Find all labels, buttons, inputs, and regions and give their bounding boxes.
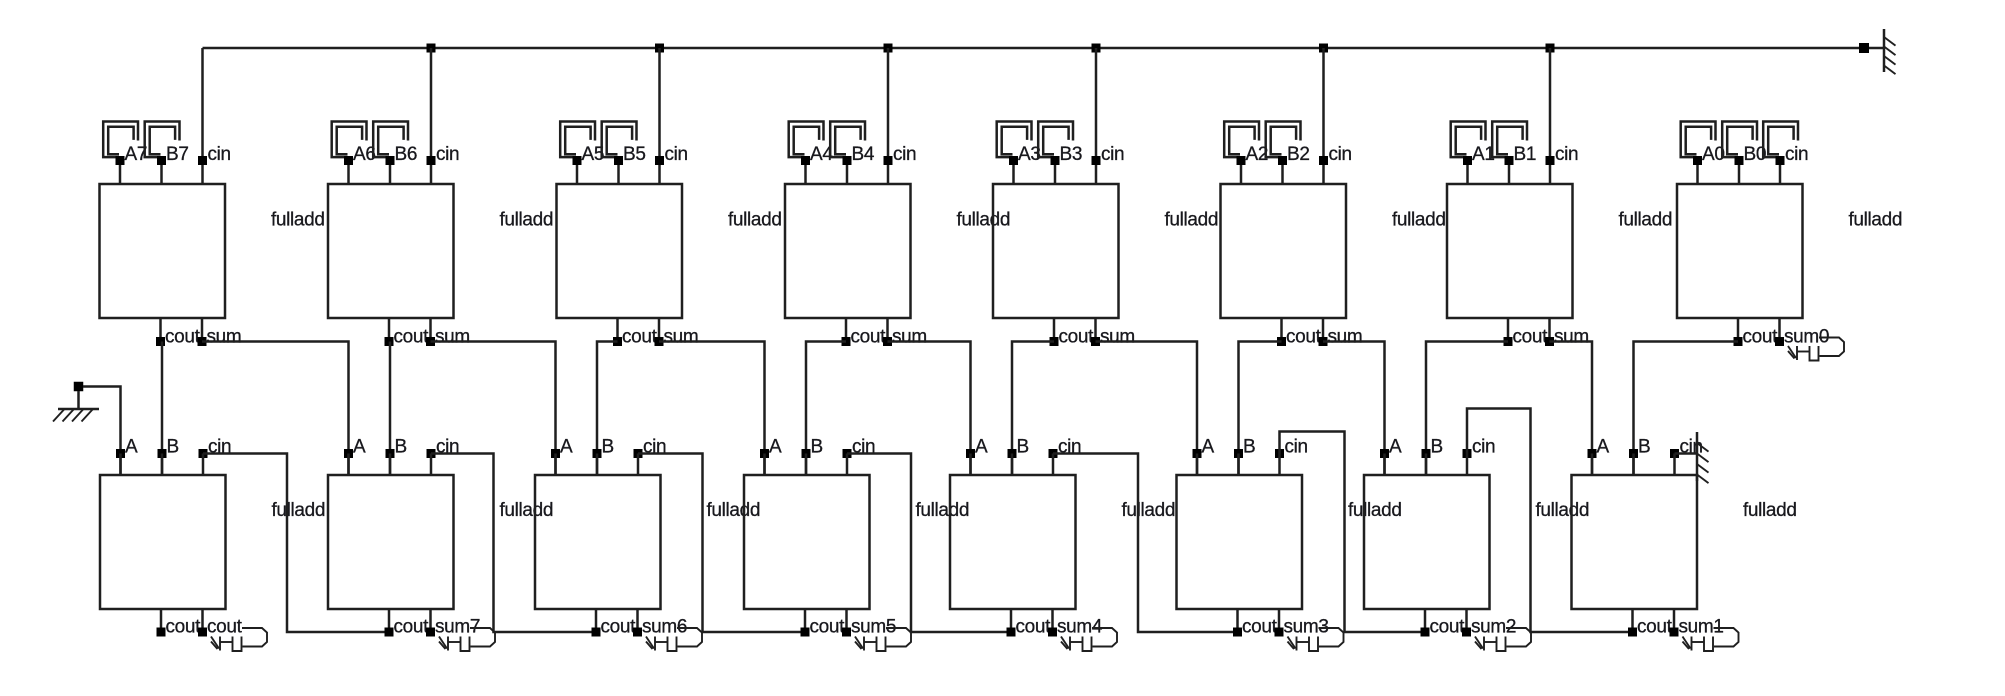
svg-text:B1: B1 xyxy=(1514,144,1537,165)
wire: U2.cout to U10.B xyxy=(389,342,392,476)
label: fulladd U11 xyxy=(707,500,761,521)
wire: U7.cout stub xyxy=(1507,318,1510,342)
pin: U9.cout xyxy=(157,628,166,637)
fulladd U2 (top row bit 6) xyxy=(328,184,454,318)
pin: U12.B xyxy=(802,449,811,458)
label: cout (U9) xyxy=(166,617,202,638)
svg-text:sum7: sum7 xyxy=(435,617,480,638)
wire: U16.cin to ground xyxy=(1675,452,1698,455)
wire: U10.sum stub xyxy=(429,609,432,632)
wire: U5.cout to U13.B xyxy=(1012,342,1054,476)
label: cin (U3) xyxy=(665,144,688,165)
pin: U1.cin xyxy=(198,156,207,165)
wire: U16.cin stub xyxy=(1673,454,1676,476)
wire: U1.cout to U9.B xyxy=(161,342,164,476)
label: fulladd U7 xyxy=(1619,210,1673,231)
wire: A2 button to U6.A xyxy=(1240,161,1243,185)
wire: U12.B stub xyxy=(805,454,808,476)
label: cin (U6) xyxy=(1329,144,1352,165)
label: B (U10) xyxy=(395,437,407,458)
wire: U10.cin to U11.cout (carry chain) xyxy=(431,454,596,633)
button B4 xyxy=(830,122,865,158)
wire: U14.B stub xyxy=(1237,454,1240,476)
label: cin (U8) xyxy=(1785,144,1808,165)
svg-text:sum: sum xyxy=(1100,327,1135,348)
wire: U2.sum to U11.A xyxy=(431,342,556,476)
led: sum0 indicator xyxy=(1788,338,1844,361)
svg-text:cout: cout xyxy=(165,327,201,348)
wire: U9.cin to U10.cout (carry chain) xyxy=(203,454,389,633)
wire: U13.sum stub xyxy=(1051,609,1054,632)
svg-text:sum4: sum4 xyxy=(1057,617,1103,638)
wire: U11.sum stub xyxy=(636,609,639,632)
label: sum (U6) xyxy=(1328,327,1363,348)
wire: cin button to U8.cin xyxy=(1779,161,1782,185)
pin: U7.B (B1) xyxy=(1505,156,1514,165)
svg-text:A: A xyxy=(560,437,573,458)
label: A2 xyxy=(1246,144,1269,165)
svg-text:fulladd: fulladd xyxy=(957,210,1011,231)
wire: U16.B stub xyxy=(1632,454,1635,476)
wire: U15.A stub xyxy=(1383,454,1386,476)
svg-text:fulladd: fulladd xyxy=(728,210,782,231)
wire: U11.cout stub xyxy=(595,609,598,632)
fulladd U9 (bottom row) xyxy=(100,475,226,609)
wire: U9.B stub xyxy=(161,454,164,476)
wire: U4.sum to U13.A xyxy=(888,342,971,476)
label: B1 xyxy=(1514,144,1537,165)
svg-text:fulladd: fulladd xyxy=(1392,210,1446,231)
label: B7 xyxy=(166,144,189,165)
label: B (U12) xyxy=(811,437,823,458)
svg-text:cin: cin xyxy=(893,144,916,165)
pin: U16.B xyxy=(1629,449,1638,458)
label: sum (U2) xyxy=(435,327,470,348)
pin: U1.cout xyxy=(156,337,165,346)
pin: U14.cout xyxy=(1233,628,1242,637)
wire: U2.sum stub xyxy=(429,318,432,342)
button A4 xyxy=(789,122,824,158)
pin: U16.cout xyxy=(1628,628,1637,637)
label: net sum6 xyxy=(642,617,687,638)
pin: U1.sum xyxy=(198,337,207,346)
wire: U4.cout to U12.B xyxy=(806,342,846,476)
label: fulladd U6 xyxy=(1392,210,1446,231)
label: fulladd U12 xyxy=(916,500,970,521)
label: cin (U7) xyxy=(1555,144,1578,165)
pin: U15.A xyxy=(1380,449,1389,458)
pin: U15.B xyxy=(1422,449,1431,458)
fulladd U12 (bottom row) xyxy=(744,475,870,609)
wire: U1.cout stub xyxy=(159,318,162,342)
junction: bus to U6 cin xyxy=(1319,44,1328,53)
label: fulladd U16 xyxy=(1743,500,1797,521)
wire: U12.cin stub xyxy=(846,454,849,476)
svg-text:B: B xyxy=(811,437,823,458)
pin: U3.cout xyxy=(613,337,622,346)
pin: U10.B xyxy=(386,449,395,458)
pin: U13.A xyxy=(966,449,975,458)
wire: U9.sum stub xyxy=(201,609,204,632)
wire: bus drop to U3 cin xyxy=(658,48,661,184)
button B7 xyxy=(145,122,180,158)
fulladd U8 (top row bit 0) xyxy=(1677,184,1803,318)
button B5 xyxy=(602,122,637,158)
wire: U6.sum to U15.A xyxy=(1323,342,1385,476)
label: cout (U2) xyxy=(394,327,430,348)
wire: bus drop to U5 cin xyxy=(1095,48,1098,184)
label: A7 xyxy=(125,144,148,165)
pin: U12.cin xyxy=(843,449,852,458)
pin: bus terminal (net cin high) xyxy=(1859,43,1869,53)
button B2 xyxy=(1266,122,1301,158)
label: cin (U5) xyxy=(1101,144,1124,165)
pin: U3.B (B5) xyxy=(614,156,623,165)
svg-text:cout: cout xyxy=(1016,617,1052,638)
pin: U12.sum / net xyxy=(842,628,851,637)
label: cout (U11) xyxy=(601,617,637,638)
fulladd U16 (bottom row) xyxy=(1572,475,1698,609)
label: sum (U3) xyxy=(664,327,699,348)
label: net sum3 xyxy=(1284,617,1329,638)
wire: U8.cout stub xyxy=(1737,318,1740,342)
wire: U13.cin stub xyxy=(1052,454,1055,476)
svg-text:cin: cin xyxy=(1329,144,1352,165)
svg-text:B5: B5 xyxy=(623,144,646,165)
label: A4 xyxy=(810,144,833,165)
wire: U11.cin to U12.cout (carry chain) xyxy=(638,454,805,633)
label: B5 xyxy=(623,144,646,165)
wire: A7 button to U1.A xyxy=(119,161,122,185)
wire: U7.sum to U16.A xyxy=(1550,342,1593,476)
label: A (U10) xyxy=(353,437,366,458)
label: cout (U14) xyxy=(1242,617,1278,638)
svg-text:A: A xyxy=(125,437,138,458)
junction: bus to U5 cin xyxy=(1092,44,1101,53)
wire: U9.cin stub xyxy=(202,454,205,476)
wire: U10.cin stub xyxy=(430,454,433,476)
svg-text:B4: B4 xyxy=(852,144,875,165)
pin: U8.cin xyxy=(1776,156,1785,165)
label: cout (U7) xyxy=(1513,327,1549,348)
pin: U3.sum xyxy=(655,337,664,346)
pin: U14.A xyxy=(1193,449,1202,458)
svg-text:B: B xyxy=(1017,437,1029,458)
wire: U2.cout stub xyxy=(388,318,391,342)
wire: bus drop to U6 cin xyxy=(1322,48,1325,184)
label: cout (U5) xyxy=(1059,327,1095,348)
svg-text:cin: cin xyxy=(208,144,231,165)
wire: A3 button to U5.A xyxy=(1012,161,1015,185)
pin: U9.A xyxy=(116,449,125,458)
svg-text:B7: B7 xyxy=(166,144,189,165)
fulladd U10 (bottom row) xyxy=(328,475,454,609)
ground: left (A input of U9) xyxy=(53,382,99,422)
wire: U10.A stub xyxy=(347,454,350,476)
pin: U5.sum xyxy=(1091,337,1100,346)
label: A6 xyxy=(353,144,376,165)
wire: U13.cout stub xyxy=(1010,609,1013,632)
label: fulladd U10 xyxy=(500,500,554,521)
wire: U8.sum stub xyxy=(1778,318,1781,342)
pin: U3.cin xyxy=(655,156,664,165)
wire: U16.sum stub xyxy=(1673,609,1676,632)
pin: U7.cout xyxy=(1504,337,1513,346)
svg-text:cin: cin xyxy=(665,144,688,165)
wire: U12.cin to U13.cout (carry chain) xyxy=(847,454,1011,633)
wire: U8.cout to U16.B xyxy=(1634,342,1739,476)
svg-text:fulladd: fulladd xyxy=(1122,500,1176,521)
wire: bus drop to U2 cin xyxy=(430,48,433,184)
wire: U13.A stub xyxy=(969,454,972,476)
pin: U16.cin xyxy=(1670,449,1679,458)
wire: B5 button to U3.B xyxy=(617,161,620,185)
label: fulladd U9 xyxy=(272,500,326,521)
label: sum (U7) xyxy=(1554,327,1589,348)
pin: U9.sum / net xyxy=(198,628,207,637)
svg-text:cout: cout xyxy=(622,327,658,348)
svg-text:fulladd: fulladd xyxy=(1743,500,1797,521)
label: cout (U6) xyxy=(1286,327,1322,348)
label: cout (U4) xyxy=(851,327,887,348)
pin: U8.B (B0) xyxy=(1735,156,1744,165)
svg-text:fulladd: fulladd xyxy=(1849,210,1903,231)
label: cout (U10) xyxy=(394,617,430,638)
wire: U11.cin stub xyxy=(637,454,640,476)
label: B (U14) xyxy=(1243,437,1255,458)
wire: U3.cout stub xyxy=(616,318,619,342)
pin: U5.A (A3) xyxy=(1009,156,1018,165)
svg-text:B: B xyxy=(167,437,179,458)
fulladd U7 (top row bit 1) xyxy=(1447,184,1573,318)
label: B4 xyxy=(852,144,875,165)
pin: U10.sum / net xyxy=(426,628,435,637)
wire: bus drop to U1 cin xyxy=(201,48,204,184)
pin: U13.cout xyxy=(1007,628,1016,637)
label: cout (U8) xyxy=(1743,327,1779,348)
wire: U4.sum stub xyxy=(886,318,889,342)
label: cin (U11) xyxy=(643,437,666,458)
label: A5 xyxy=(582,144,605,165)
button A0 xyxy=(1681,122,1716,158)
pin: U4.sum xyxy=(883,337,892,346)
wire: U5.sum to U14.A xyxy=(1096,342,1198,476)
wire: U16.A stub xyxy=(1591,454,1594,476)
svg-text:fulladd: fulladd xyxy=(707,500,761,521)
wire: B2 button to U6.B xyxy=(1281,161,1284,185)
label: fulladd U1 xyxy=(271,210,325,231)
svg-text:cout: cout xyxy=(1430,617,1466,638)
label: cin (U13) xyxy=(1058,437,1081,458)
pin: U7.A (A1) xyxy=(1463,156,1472,165)
wire: B6 button to U2.B xyxy=(389,161,392,185)
label: cin (U14) xyxy=(1285,437,1308,458)
wire: A6 button to U2.A xyxy=(347,161,350,185)
wire: U5.sum stub xyxy=(1094,318,1097,342)
label: A (U9) xyxy=(125,437,138,458)
label: cin (U10) xyxy=(436,437,459,458)
label: A0 xyxy=(1702,144,1725,165)
svg-text:sum: sum xyxy=(1554,327,1589,348)
label: fulladd U5 xyxy=(1165,210,1219,231)
svg-text:cin: cin xyxy=(436,144,459,165)
wire: U14.cin to U15.cout (carry chain, raised) xyxy=(1280,432,1426,633)
pin: U15.sum / net xyxy=(1462,628,1471,637)
wire: U12.A stub xyxy=(763,454,766,476)
svg-text:cout: cout xyxy=(1513,327,1549,348)
label: sum (U1) xyxy=(207,327,242,348)
wire: B4 button to U4.B xyxy=(846,161,849,185)
label: fulladd U15 xyxy=(1536,500,1590,521)
wire: ground to U9.A xyxy=(83,387,121,476)
label: net sum5 xyxy=(851,617,896,638)
svg-text:sum2: sum2 xyxy=(1471,617,1516,638)
svg-text:B2: B2 xyxy=(1287,144,1310,165)
label: cin (U1) xyxy=(208,144,231,165)
pin: U8.A (A0) xyxy=(1693,156,1702,165)
svg-text:fulladd: fulladd xyxy=(1619,210,1673,231)
pin: U13.B xyxy=(1008,449,1017,458)
pin: U8.sum xyxy=(1775,337,1784,346)
label: A1 xyxy=(1472,144,1495,165)
label: fulladd U14 xyxy=(1348,500,1402,521)
pin: U2.cin xyxy=(427,156,436,165)
pin: U15.cout xyxy=(1421,628,1430,637)
svg-text:cout: cout xyxy=(207,617,243,638)
label: B (U15) xyxy=(1431,437,1443,458)
svg-text:cout: cout xyxy=(1637,617,1673,638)
svg-text:B: B xyxy=(395,437,407,458)
wire: U11.A stub xyxy=(554,454,557,476)
svg-text:cin: cin xyxy=(1285,437,1308,458)
led: sum3 indicator xyxy=(1288,628,1344,651)
pin: U14.cin xyxy=(1275,449,1284,458)
junction: bus to U7 cin xyxy=(1546,44,1555,53)
pin: U14.B xyxy=(1234,449,1243,458)
wire: U10.cout stub xyxy=(388,609,391,632)
label: B (U11) xyxy=(602,437,614,458)
label: B (U16) xyxy=(1638,437,1650,458)
pin: U4.B (B4) xyxy=(843,156,852,165)
svg-text:sum: sum xyxy=(207,327,242,348)
svg-text:fulladd: fulladd xyxy=(1165,210,1219,231)
wire: U11.B stub xyxy=(596,454,599,476)
svg-text:cin: cin xyxy=(1472,437,1495,458)
led: sum7 indicator xyxy=(439,628,495,651)
pin: U16.sum / net xyxy=(1670,628,1679,637)
label: net sum7 xyxy=(435,617,480,638)
svg-text:B: B xyxy=(1638,437,1650,458)
wire: A1 button to U7.A xyxy=(1466,161,1469,185)
pin: U13.sum / net xyxy=(1048,628,1057,637)
wire: U14.A stub xyxy=(1196,454,1199,476)
svg-text:fulladd: fulladd xyxy=(500,500,554,521)
label: net cout xyxy=(207,617,243,638)
pin: U5.cin xyxy=(1092,156,1101,165)
pin: U6.cout xyxy=(1277,337,1286,346)
svg-text:fulladd: fulladd xyxy=(272,500,326,521)
pin: U10.A xyxy=(344,449,353,458)
pin: U4.cin xyxy=(884,156,893,165)
pin: U3.A (A5) xyxy=(573,156,582,165)
wire: U14.cout stub xyxy=(1236,609,1239,632)
svg-text:A: A xyxy=(769,437,782,458)
button B1 xyxy=(1492,122,1527,158)
svg-text:cout: cout xyxy=(166,617,202,638)
label: cin (U2) xyxy=(436,144,459,165)
label: fulladd U13 xyxy=(1122,500,1176,521)
svg-text:A: A xyxy=(353,437,366,458)
label: net sum1 xyxy=(1679,617,1724,638)
svg-text:cout: cout xyxy=(1242,617,1278,638)
svg-text:fulladd: fulladd xyxy=(271,210,325,231)
junction: bus to U4 cin xyxy=(884,44,893,53)
label: cin (U16) xyxy=(1680,437,1703,458)
pin: U11.cin xyxy=(634,449,643,458)
wire: U3.sum to U12.A xyxy=(659,342,765,476)
label: B (U9) xyxy=(167,437,179,458)
led: sum2 indicator xyxy=(1475,628,1531,651)
fulladd U11 (bottom row) xyxy=(535,475,661,609)
pin: U15.cin xyxy=(1463,449,1472,458)
svg-text:fulladd: fulladd xyxy=(916,500,970,521)
pin: U11.B xyxy=(593,449,602,458)
svg-text:sum6: sum6 xyxy=(642,617,687,638)
pin: U7.sum xyxy=(1545,337,1554,346)
pin: U9.cin xyxy=(199,449,208,458)
svg-text:A: A xyxy=(1597,437,1610,458)
wire: U9.A stub xyxy=(119,454,122,476)
button A7 xyxy=(103,122,138,158)
svg-text:cin: cin xyxy=(1785,144,1808,165)
label: B3 xyxy=(1060,144,1083,165)
label: cout (U3) xyxy=(622,327,658,348)
pin: U5.cout xyxy=(1050,337,1059,346)
label: sum (U4) xyxy=(892,327,927,348)
button A1 xyxy=(1451,122,1486,158)
label: fulladd U2 xyxy=(500,210,554,231)
pin: U4.A (A4) xyxy=(801,156,810,165)
wire: U1.sum to U10.A xyxy=(202,342,349,476)
wire: A4 button to U4.A xyxy=(804,161,807,185)
svg-text:cout: cout xyxy=(1286,327,1322,348)
wire: A5 button to U3.A xyxy=(576,161,579,185)
label: A (U16) xyxy=(1597,437,1610,458)
wire: U5.cout stub xyxy=(1053,318,1056,342)
svg-text:A: A xyxy=(1389,437,1402,458)
button A3 xyxy=(997,122,1032,158)
label: A (U15) xyxy=(1389,437,1402,458)
wire: U9.cout stub xyxy=(160,609,163,632)
pin: U5.B (B3) xyxy=(1051,156,1060,165)
led: sum1 indicator xyxy=(1683,628,1739,651)
wire: U10.B stub xyxy=(389,454,392,476)
label: cin (U15) xyxy=(1472,437,1495,458)
junction: bus to U3 cin xyxy=(655,44,664,53)
pin: U1.B (B7) xyxy=(157,156,166,165)
svg-text:A: A xyxy=(1202,437,1215,458)
svg-text:sum: sum xyxy=(1328,327,1363,348)
wire: U15.sum stub xyxy=(1465,609,1468,632)
svg-text:sum3: sum3 xyxy=(1284,617,1329,638)
button A6 xyxy=(332,122,367,158)
svg-text:sum: sum xyxy=(435,327,470,348)
label: cout (U13) xyxy=(1016,617,1052,638)
svg-text:sum5: sum5 xyxy=(851,617,896,638)
label: B6 xyxy=(395,144,418,165)
pin: U2.cout xyxy=(385,337,394,346)
button B0 xyxy=(1722,122,1757,158)
